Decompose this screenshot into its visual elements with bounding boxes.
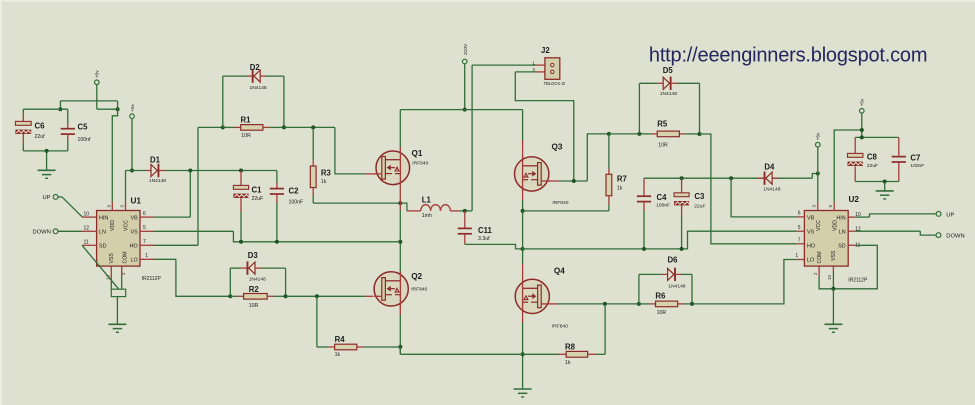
- svg-text:1mh: 1mh: [422, 213, 432, 219]
- node: [607, 132, 611, 136]
- wire gate Q1: [335, 127, 377, 173]
- svg-text:22uF: 22uF: [252, 196, 264, 202]
- svg-text:R8: R8: [565, 342, 576, 351]
- wire gate Q2: [286, 295, 373, 297]
- power pin +5V (U2 VCC): [816, 132, 821, 147]
- diode D6: [661, 256, 685, 290]
- svg-text:IRF840: IRF840: [552, 200, 568, 206]
- transistor Q4: [515, 267, 568, 330]
- svg-text:VB: VB: [807, 215, 815, 221]
- wire: [96, 85, 98, 110]
- wire: [223, 75, 247, 77]
- node: [521, 352, 525, 356]
- power pin +5V (left): [95, 70, 100, 85]
- svg-text:22uF: 22uF: [694, 203, 705, 209]
- svg-text:6: 6: [143, 211, 146, 217]
- resistor R4: [317, 335, 400, 358]
- diode D5: [657, 66, 678, 97]
- node: [239, 169, 243, 173]
- node: [239, 240, 243, 244]
- wire: [111, 277, 125, 297]
- wire: [46, 151, 48, 170]
- svg-text:C5: C5: [78, 123, 89, 132]
- wire: [699, 83, 701, 134]
- svg-text:COM: COM: [817, 251, 823, 263]
- op-amp U1 (IR2112P driver): [82, 197, 161, 283]
- power pin +5V (right): [860, 98, 865, 113]
- wire: [522, 314, 524, 324]
- svg-text:C8: C8: [867, 153, 878, 162]
- wire: [23, 108, 68, 110]
- ground: [876, 191, 894, 199]
- wire: [522, 200, 524, 264]
- svg-text:1k: 1k: [565, 360, 571, 366]
- svg-text:7: 7: [143, 239, 146, 245]
- wire: [58, 197, 82, 217]
- svg-text:DOWN: DOWN: [946, 234, 964, 240]
- node: [282, 125, 286, 129]
- node: [637, 132, 641, 136]
- wire: [399, 347, 401, 354]
- svg-text:11: 11: [84, 240, 89, 246]
- wire gate Q4: [549, 303, 639, 305]
- svg-text:R7: R7: [617, 175, 627, 184]
- transistor Q2: [374, 272, 428, 306]
- terminal DOWN (left): [32, 229, 58, 236]
- wire: [399, 210, 401, 272]
- wire: [58, 230, 82, 232]
- node: [680, 176, 684, 180]
- ground: [824, 324, 842, 332]
- svg-text:VDD: VDD: [832, 220, 838, 231]
- wire VS U2: [523, 231, 797, 249]
- wire: [861, 113, 863, 137]
- wire: [682, 273, 692, 275]
- svg-text:HO: HO: [807, 244, 815, 250]
- svg-text:C4: C4: [657, 193, 668, 202]
- svg-text:L1: L1: [422, 195, 432, 204]
- svg-text:LN: LN: [99, 230, 106, 236]
- svg-text:1N4148: 1N4148: [763, 187, 780, 193]
- wire VDD U1: [112, 109, 117, 202]
- wire SD U2: [833, 245, 877, 288]
- svg-text:R4: R4: [335, 335, 346, 344]
- capacitor C8: [848, 137, 879, 181]
- svg-text:+5v: +5v: [130, 103, 135, 111]
- resistor R7: [606, 134, 627, 211]
- node: [603, 302, 607, 306]
- svg-text:Q3: Q3: [552, 142, 563, 151]
- wire VB U2: [731, 178, 797, 217]
- svg-text:10R: 10R: [658, 143, 668, 149]
- wire: [819, 277, 833, 289]
- wire bootstrap rail: [644, 177, 812, 179]
- resistor R8: [523, 342, 606, 366]
- node: [680, 247, 684, 251]
- svg-text:1k: 1k: [335, 352, 341, 358]
- node: [642, 247, 646, 251]
- wire 310V rail: [400, 109, 522, 111]
- wire: [230, 267, 240, 269]
- wire: [283, 76, 285, 127]
- svg-text:VS: VS: [130, 230, 138, 236]
- svg-text:3.3uf: 3.3uf: [478, 236, 490, 242]
- power pin +5V (U1 VCC): [130, 103, 135, 118]
- wire: [639, 273, 662, 275]
- svg-text:D2: D2: [250, 63, 261, 72]
- svg-text:D5: D5: [663, 66, 674, 75]
- svg-text:U2: U2: [849, 195, 860, 204]
- svg-text:6: 6: [798, 211, 801, 217]
- wire: [166, 170, 277, 172]
- node: [398, 240, 402, 244]
- wire: [222, 76, 224, 127]
- wire: [638, 83, 640, 134]
- svg-text:C3: C3: [694, 192, 705, 201]
- svg-text:TBLOCK-I2: TBLOCK-I2: [544, 81, 566, 86]
- svg-text:Q1: Q1: [412, 149, 423, 158]
- capacitor C7: [892, 137, 925, 181]
- node: [860, 135, 864, 139]
- wire: [59, 101, 61, 109]
- node: [221, 125, 225, 129]
- svg-text:22uF: 22uF: [867, 163, 878, 169]
- wire: [261, 267, 286, 269]
- svg-text:1N4148: 1N4148: [249, 277, 266, 283]
- inductor L1: [407, 195, 460, 219]
- svg-text:22uf: 22uf: [35, 134, 46, 140]
- svg-text:+5v: +5v: [860, 98, 865, 106]
- node: [637, 302, 641, 306]
- svg-text:VB: VB: [130, 216, 138, 222]
- node: [816, 172, 820, 176]
- wire: [400, 353, 522, 355]
- wire: [855, 181, 899, 183]
- svg-text:Q4: Q4: [554, 267, 565, 276]
- wire VB U1: [154, 171, 190, 218]
- wire: [522, 158, 524, 201]
- wire: [117, 101, 119, 109]
- svg-text:R5: R5: [657, 120, 668, 129]
- svg-text:LO: LO: [130, 258, 137, 264]
- wire VS U1: [154, 231, 400, 242]
- svg-text:UP: UP: [42, 195, 50, 201]
- wire: [464, 64, 466, 110]
- svg-text:D4: D4: [764, 163, 775, 172]
- node: [883, 180, 887, 184]
- svg-text:http://eeenginners.blogspot.co: http://eeenginners.blogspot.com: [649, 44, 927, 66]
- svg-text:100nF: 100nF: [656, 203, 670, 209]
- svg-text:DOWN: DOWN: [32, 230, 50, 236]
- ground: [38, 170, 56, 178]
- wire: [609, 133, 640, 135]
- wire LO U1: [154, 259, 230, 296]
- svg-text:Q2: Q2: [411, 272, 422, 281]
- resistor R6: [639, 292, 692, 316]
- wire: [691, 274, 693, 304]
- terminal UP (right): [936, 212, 954, 219]
- svg-text:D3: D3: [248, 251, 259, 260]
- svg-text:D1: D1: [150, 155, 161, 164]
- node: [275, 240, 279, 244]
- svg-text:C6: C6: [35, 122, 46, 131]
- svg-text:12: 12: [84, 226, 90, 232]
- svg-text:1: 1: [145, 253, 148, 259]
- svg-text:HIN: HIN: [99, 216, 108, 222]
- svg-text:1N4148: 1N4148: [668, 284, 685, 290]
- ground: [514, 389, 532, 397]
- svg-text:VCC: VCC: [124, 220, 130, 231]
- wire: [23, 150, 68, 152]
- wire drain Q1: [399, 110, 401, 147]
- svg-text:D6: D6: [668, 256, 679, 265]
- wire: [639, 82, 657, 84]
- svg-text:C2: C2: [289, 187, 300, 196]
- svg-text:R3: R3: [321, 168, 332, 177]
- node: [860, 128, 864, 132]
- wire: [60, 100, 117, 102]
- svg-text:IRF840: IRF840: [412, 161, 428, 167]
- wire: [587, 134, 609, 181]
- wire: [116, 297, 118, 324]
- svg-text:VCC: VCC: [816, 220, 822, 231]
- node: [45, 149, 49, 153]
- svg-text:1k: 1k: [321, 179, 327, 185]
- node: [188, 169, 192, 173]
- node: [398, 201, 402, 205]
- wire drain Q3: [522, 110, 524, 158]
- wire: [399, 147, 401, 210]
- node: [58, 107, 62, 111]
- svg-text:1N4148: 1N4148: [149, 178, 166, 184]
- wire: [67, 109, 69, 123]
- svg-text:10R: 10R: [249, 303, 259, 309]
- svg-text:HO: HO: [130, 244, 138, 250]
- wire: [97, 108, 118, 110]
- wire VCC U2: [817, 174, 819, 202]
- power pin 310V: [462, 43, 468, 64]
- svg-text:SD: SD: [99, 244, 107, 250]
- node: [398, 345, 402, 349]
- svg-text:5: 5: [798, 225, 801, 231]
- wire: [460, 210, 465, 212]
- wire: [604, 304, 606, 354]
- svg-text:7: 7: [798, 237, 801, 243]
- svg-text:310V: 310V: [463, 43, 469, 55]
- diode D3: [241, 251, 267, 283]
- wire: [22, 109, 24, 114]
- wire VCC U1: [125, 171, 127, 202]
- node: [311, 125, 315, 129]
- node: [463, 209, 467, 213]
- terminal UP (left): [42, 195, 58, 202]
- svg-text:J2: J2: [541, 46, 550, 55]
- wire: [832, 272, 834, 289]
- capacitor C4: [637, 178, 670, 249]
- svg-text:1N4148: 1N4148: [250, 85, 267, 91]
- capacitor C3: [674, 178, 705, 249]
- svg-text:VDD: VDD: [110, 220, 116, 231]
- wire: [884, 182, 886, 191]
- wire: [638, 274, 640, 304]
- node: [572, 179, 576, 183]
- resistor R3: [310, 127, 331, 203]
- wire: [399, 272, 401, 316]
- svg-text:R1: R1: [241, 115, 252, 124]
- node: [130, 169, 134, 173]
- svg-text:100nF: 100nF: [289, 199, 304, 205]
- node: [729, 176, 733, 180]
- wire: [131, 119, 133, 171]
- svg-text:IR2112P: IR2112P: [142, 276, 162, 282]
- svg-text:LO: LO: [807, 257, 814, 263]
- diode D1: [146, 155, 166, 184]
- wire SD U1: [82, 245, 119, 289]
- capacitor C1: [233, 171, 263, 242]
- svg-text:COM: COM: [123, 251, 129, 263]
- wire: [832, 289, 834, 324]
- node: [831, 287, 835, 291]
- svg-text:LN: LN: [839, 229, 846, 235]
- svg-text:C11: C11: [478, 226, 493, 235]
- wire: [855, 136, 899, 138]
- svg-text:VSS: VSS: [109, 253, 115, 264]
- wire: [284, 126, 335, 128]
- svg-text:R2: R2: [249, 285, 260, 294]
- node: [228, 294, 232, 298]
- svg-text:5: 5: [143, 225, 146, 231]
- resistor R2: [230, 285, 285, 309]
- wire: [266, 75, 284, 77]
- wire: [126, 170, 147, 172]
- capacitor C5: [61, 123, 91, 151]
- transistor Q3: [515, 142, 569, 206]
- svg-text:VSS: VSS: [831, 250, 837, 261]
- svg-text:10: 10: [84, 211, 90, 217]
- svg-text:R6: R6: [655, 292, 666, 301]
- wire HIN U2: [856, 214, 936, 217]
- svg-text:SD: SD: [838, 244, 846, 250]
- svg-text:100nf: 100nf: [78, 137, 92, 143]
- wire: [316, 296, 318, 347]
- op-amp U2 (IR2112P driver): [795, 195, 868, 284]
- wire LO U2: [692, 260, 797, 304]
- diode D4: [757, 163, 781, 193]
- wire J2 pin2: [515, 72, 574, 181]
- wire HO U1: [154, 127, 223, 245]
- svg-text:1k: 1k: [617, 186, 623, 192]
- wire: [399, 315, 401, 354]
- node: [315, 294, 319, 298]
- svg-text:1N4148: 1N4148: [660, 91, 677, 97]
- wire J2 pin1: [465, 65, 537, 211]
- wire VDD U2: [834, 130, 862, 202]
- node: [698, 132, 702, 136]
- svg-text:C1: C1: [252, 186, 263, 195]
- svg-text:100nF: 100nF: [910, 163, 924, 169]
- svg-text:10R: 10R: [241, 133, 251, 139]
- wire: [523, 210, 609, 212]
- svg-text:U1: U1: [131, 197, 142, 206]
- wire: [285, 268, 287, 296]
- wire HO U2: [700, 134, 797, 244]
- connector J2: [533, 46, 566, 86]
- svg-text:1: 1: [795, 253, 798, 259]
- resistor R5: [639, 120, 699, 149]
- capacitor C6: [15, 115, 45, 151]
- wire: [812, 174, 818, 179]
- svg-text:IRF840: IRF840: [411, 287, 427, 293]
- capacitor C2: [270, 171, 303, 242]
- svg-text:C7: C7: [910, 153, 920, 162]
- resistor R1: [223, 115, 284, 139]
- wire: [400, 203, 407, 211]
- node: [463, 108, 467, 112]
- ground: [108, 324, 126, 332]
- node: [521, 247, 525, 251]
- svg-text:IRF840: IRF840: [552, 324, 568, 330]
- wire LIN U2: [856, 231, 936, 235]
- wire: [522, 264, 524, 280]
- wire: [465, 244, 523, 249]
- wire: [678, 82, 700, 84]
- wire gate Q3: [549, 180, 588, 182]
- wire: [817, 147, 819, 174]
- url text: [649, 44, 927, 66]
- svg-text:13: 13: [827, 275, 832, 280]
- diode D2: [247, 63, 267, 91]
- wire: [229, 268, 231, 296]
- node: [690, 302, 694, 306]
- svg-text:VS: VS: [807, 229, 815, 235]
- svg-text:+5v: +5v: [95, 70, 100, 78]
- node: [116, 107, 120, 111]
- node: [284, 294, 288, 298]
- svg-text:+5v: +5v: [816, 132, 821, 140]
- wire: [522, 323, 524, 389]
- svg-text:UP: UP: [946, 212, 954, 218]
- node: [521, 209, 525, 213]
- capacitor C11: [458, 211, 493, 245]
- svg-text:IR2112P: IR2112P: [848, 278, 868, 284]
- transistor Q1: [376, 149, 429, 184]
- terminal DOWN (right): [936, 233, 965, 240]
- wire: [313, 202, 400, 204]
- svg-text:10R: 10R: [657, 310, 667, 316]
